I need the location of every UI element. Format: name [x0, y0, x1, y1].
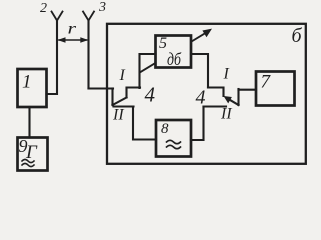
wavy symbol in box 8: [167, 140, 181, 148]
antenna 3: [83, 12, 94, 21]
antenna 2: [52, 12, 63, 21]
svg-text:4: 4: [145, 83, 156, 107]
wire box 5 to right switch contact I: [191, 54, 208, 88]
svg-text:8: 8: [161, 121, 169, 137]
wire antenna 2 feeder: [47, 20, 58, 94]
right switch 4: pole bar: [237, 89, 239, 105]
box 8 indicator: [156, 120, 191, 157]
svg-text:дб: дб: [167, 49, 182, 69]
svg-text:1: 1: [22, 72, 32, 93]
wire antenna 3 to left switch pole: [89, 87, 114, 89]
svg-text:5: 5: [159, 35, 167, 52]
right switch 4: arm with arrowhead: [228, 99, 239, 106]
wire contact II to box 8: [191, 107, 204, 141]
svg-text:4: 4: [196, 87, 206, 109]
wire pole to box 7: [239, 89, 257, 91]
svg-text:б: б: [292, 25, 303, 47]
wire antenna 3 feeder: [87, 20, 89, 89]
left switch contact I tick: [127, 88, 141, 98]
svg-text:II: II: [112, 107, 124, 124]
wire contact I to attenuator 5: [140, 54, 156, 88]
wire box1 to box9: [28, 107, 30, 138]
svg-text:r: r: [68, 21, 78, 38]
svg-text:3: 3: [98, 0, 106, 15]
left switch 4: arm: [113, 98, 127, 106]
variability arrow through box 5 (head segment): [192, 32, 207, 41]
left switch contact II tick: [114, 105, 134, 107]
variability arrow through box 5 (tail segment): [140, 64, 155, 73]
enclosure box 6: [107, 24, 306, 164]
svg-text:II: II: [220, 106, 232, 123]
svg-text:7: 7: [261, 72, 272, 93]
svg-text:I: I: [223, 66, 230, 83]
spacing dimension arrow r: [58, 37, 89, 43]
attenuator box 5: [156, 36, 192, 68]
svg-text:I: I: [119, 67, 126, 84]
wire contact II to box 8: [133, 107, 156, 140]
right switch contact I tick: [208, 88, 224, 97]
left switch 4: pole bar: [111, 89, 113, 106]
svg-text:2: 2: [40, 1, 47, 16]
box 9 signal generator: [18, 138, 48, 171]
right switch contact II tick: [204, 105, 227, 107]
wavy symbol in box 9: [22, 159, 34, 166]
box 1: [18, 69, 47, 107]
box 7: [256, 72, 295, 106]
